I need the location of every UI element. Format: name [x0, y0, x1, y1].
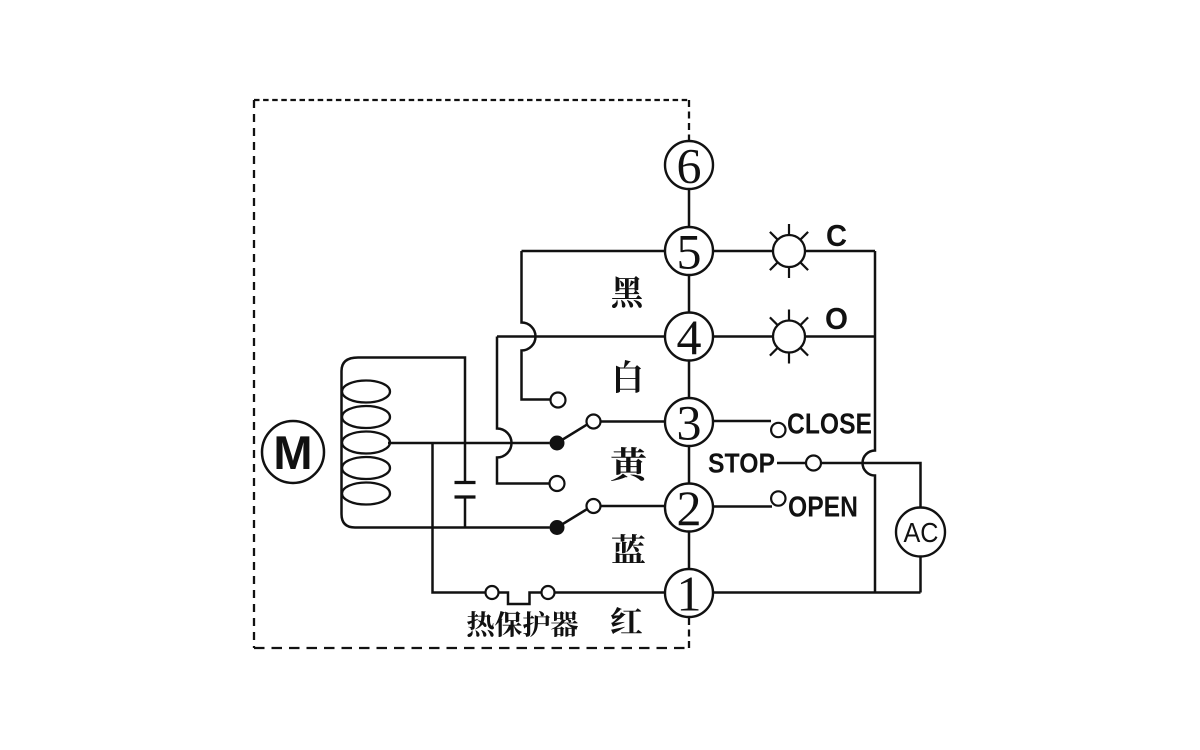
svg-text:6: 6 [677, 138, 702, 194]
svg-text:3: 3 [677, 395, 702, 451]
svg-text:2: 2 [677, 480, 702, 536]
svg-text:5: 5 [677, 224, 702, 280]
svg-text:M: M [273, 426, 312, 479]
svg-text:1: 1 [677, 566, 702, 622]
svg-text:O: O [825, 301, 848, 336]
svg-text:4: 4 [677, 309, 702, 365]
svg-text:OPEN: OPEN [788, 492, 858, 524]
svg-text:AC: AC [904, 517, 939, 548]
svg-text:CLOSE: CLOSE [787, 409, 872, 441]
svg-text:C: C [826, 218, 847, 253]
svg-text:STOP: STOP [708, 448, 775, 479]
